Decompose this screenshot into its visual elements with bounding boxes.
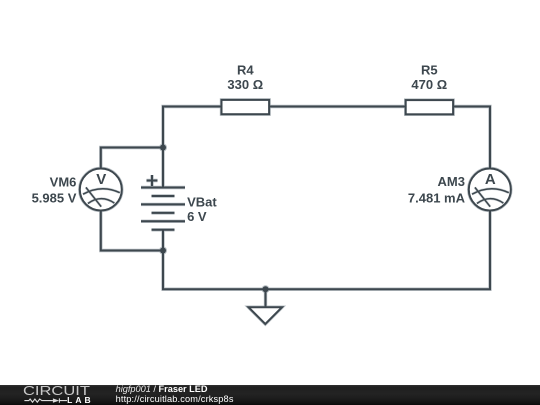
svg-text:7.481 mA: 7.481 mA bbox=[408, 190, 466, 205]
svg-text:330 Ω: 330 Ω bbox=[227, 77, 263, 92]
svg-text:VBat: VBat bbox=[187, 195, 217, 210]
svg-text:R4: R4 bbox=[237, 62, 254, 77]
svg-text:VM6: VM6 bbox=[50, 174, 77, 189]
svg-text:V: V bbox=[96, 171, 106, 188]
svg-text:470 Ω: 470 Ω bbox=[411, 77, 447, 92]
svg-text:A: A bbox=[485, 171, 496, 188]
svg-text:5.985 V: 5.985 V bbox=[32, 190, 77, 205]
svg-text:6 V: 6 V bbox=[187, 209, 207, 224]
svg-text:R5: R5 bbox=[421, 62, 438, 77]
svg-text:AM3: AM3 bbox=[438, 174, 465, 189]
